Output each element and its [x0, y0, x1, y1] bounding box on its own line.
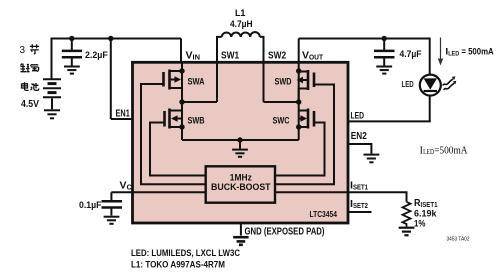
- svg-text:1%: 1%: [414, 218, 426, 228]
- svg-text:LED: LUMILEDS, LXCL LW3C: LED: LUMILEDS, LXCL LW3C: [131, 248, 240, 259]
- char jie: [30, 44, 39, 54]
- node SWD source: [296, 68, 301, 73]
- svg-text:LED: LED: [351, 111, 365, 122]
- wire ISET1 from box to resistor: [275, 192, 407, 202]
- capacitor C3 0.1uF: [102, 201, 123, 207]
- LED D1: [420, 75, 441, 96]
- svg-text:4.7µH: 4.7µH: [230, 19, 253, 29]
- IC U1 LTC3454 body: [133, 62, 349, 223]
- svg-text:EN2: EN2: [351, 131, 367, 142]
- svg-text:BUCK-BOOST: BUCK-BOOST: [211, 182, 271, 192]
- svg-text:SWB: SWB: [188, 116, 205, 127]
- node SW2: [296, 99, 301, 104]
- wire SW1 node horizontal: [182, 101, 217, 103]
- svg-text:SWC: SWC: [273, 116, 290, 127]
- battery BT1 plates: [43, 79, 61, 109]
- svg-text:LED: LED: [402, 79, 414, 89]
- node SW1: [179, 99, 184, 104]
- wire 2.2uF drop: [71, 39, 73, 51]
- svg-text:4.7µF: 4.7µF: [400, 49, 422, 59]
- inductor L1 coil: [217, 37, 264, 62]
- svg-text:0.1µF: 0.1µF: [79, 200, 102, 210]
- char qing: [31, 65, 39, 72]
- wire VC horizontal: [111, 191, 205, 193]
- transistor Q2 SWB: [165, 109, 183, 129]
- svg-text:SW1: SW1: [221, 50, 240, 61]
- wire SWD gate loop: [275, 85, 334, 185]
- transistor Q4 SWC: [299, 109, 314, 129]
- wire VIN drop: [180, 39, 182, 64]
- svg-text:3453 TA02: 3453 TA02: [447, 237, 470, 243]
- wire VIN rail inside: [181, 62, 183, 102]
- node C1/VIN junction: [69, 36, 74, 41]
- wire EN1 horizontal: [111, 118, 133, 120]
- wire SWB gate loop: [150, 123, 206, 176]
- wire top-right bus: [299, 38, 430, 40]
- label battery 3-cell NiMH chinese: [20, 44, 40, 90]
- svg-text:1MHz: 1MHz: [230, 172, 252, 182]
- svg-text:3: 3: [20, 45, 26, 56]
- svg-text:ILED=500mA: ILED=500mA: [420, 144, 468, 156]
- ground exposed pad: [233, 237, 248, 245]
- wire ISET2 stub: [348, 211, 372, 213]
- wire LED anode vertical: [429, 38, 431, 76]
- node C2/VOUT junction: [382, 36, 387, 41]
- transistor Q1 SWA: [164, 70, 183, 103]
- wire EN1 vertical: [110, 39, 112, 120]
- node EN1/VIN junction: [108, 36, 113, 41]
- char nie: [21, 64, 30, 72]
- node SWB source: [179, 124, 184, 129]
- wire SW1 vertical: [216, 62, 218, 102]
- svg-text:SWA: SWA: [188, 77, 205, 88]
- resistor RSET1 zigzag: [403, 202, 411, 227]
- ground battery: [44, 110, 60, 118]
- transistor Q3 SWD: [299, 70, 314, 102]
- wire top-left bus: [51, 38, 182, 40]
- wire VOUT drop: [298, 39, 300, 64]
- LED light arrows: [443, 79, 454, 90]
- wire EN2 to ground: [348, 144, 371, 154]
- char dian: [22, 82, 29, 90]
- wire SWC source rail: [298, 102, 300, 140]
- capacitor C1 2.2uF: [62, 51, 82, 57]
- wire LED cathode vertical: [429, 96, 431, 122]
- svg-text:SW2: SW2: [268, 50, 286, 61]
- ground C2: [376, 67, 392, 74]
- wire SW2 node horizontal: [264, 101, 299, 103]
- capacitor C2 4.7uF: [374, 51, 395, 57]
- wire internal ground stub: [239, 140, 241, 149]
- ground C1: [64, 67, 80, 74]
- wire 0.1uF drop: [110, 192, 112, 201]
- svg-text:GND (EXPOSED PAD): GND (EXPOSED PAD): [245, 227, 325, 238]
- ground C3: [104, 217, 120, 224]
- svg-text:6.19k: 6.19k: [414, 208, 437, 218]
- svg-text:4.5V: 4.5V: [21, 99, 39, 110]
- ground RSET1: [399, 228, 415, 236]
- wire internal ground bus: [182, 139, 299, 141]
- ground EN2: [364, 155, 380, 163]
- current arrow ILED: [440, 38, 442, 60]
- svg-text:L1: TOKO A997AS-4R7M: L1: TOKO A997AS-4R7M: [131, 260, 225, 271]
- wire VOUT rail inside: [298, 62, 300, 102]
- wire battery drop: [51, 38, 53, 79]
- wire LED pin horizontal: [348, 120, 430, 121]
- wire SWB source rail: [181, 102, 183, 140]
- wire GND exposed pad stub: [240, 223, 242, 236]
- wire SW2 vertical: [263, 62, 265, 102]
- node SWA source: [179, 68, 184, 73]
- node internal GND: [237, 137, 242, 142]
- node SWC source: [296, 124, 301, 129]
- svg-text:SWD: SWD: [275, 77, 292, 88]
- svg-text:L1: L1: [235, 8, 246, 18]
- svg-text:2.2µF: 2.2µF: [85, 50, 108, 60]
- wire 4.7uF drop: [383, 39, 385, 51]
- char chi: [31, 83, 39, 90]
- svg-text:LTC3454: LTC3454: [310, 209, 338, 219]
- ground internal: [232, 150, 248, 157]
- svg-text:EN1: EN1: [116, 109, 131, 120]
- wire SWA gate loop: [141, 84, 206, 184]
- oscillator block 1MHz BUCK-BOOST: [206, 166, 275, 202]
- wire SWC gate loop: [275, 123, 325, 176]
